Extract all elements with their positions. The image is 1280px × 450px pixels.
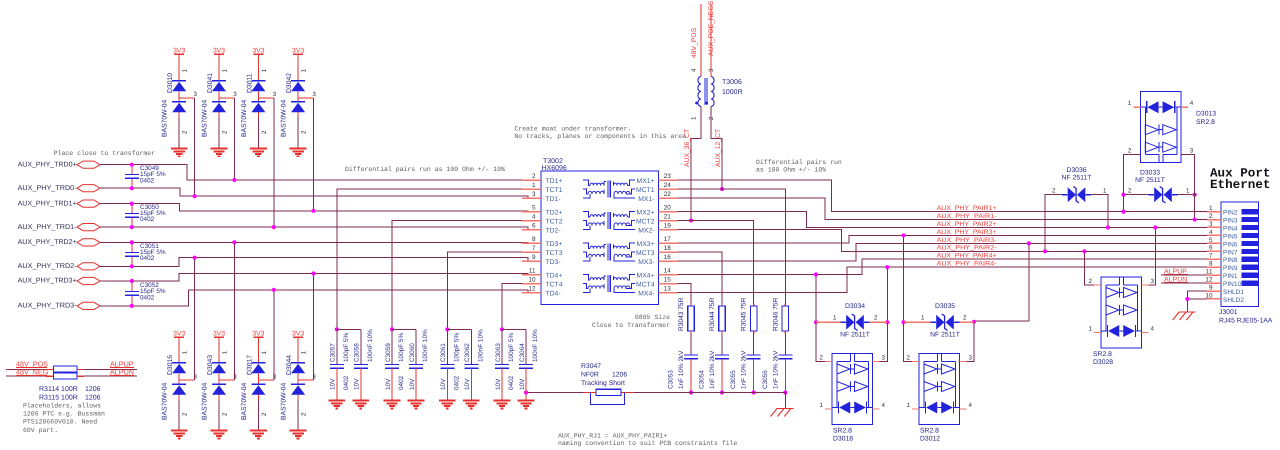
svg-text:3: 3	[1209, 221, 1213, 228]
dual diode D3043 BAS70W-04	[202, 331, 238, 439]
svg-text:D3010: D3010	[167, 73, 174, 93]
svg-text:TD1-: TD1-	[546, 196, 561, 203]
capacitor C3051 15pF	[125, 240, 166, 268]
svg-text:C3062: C3062	[464, 343, 471, 362]
T3002 pin 22 MX1-	[638, 191, 677, 203]
svg-text:2: 2	[261, 130, 268, 134]
svg-text:3: 3	[233, 91, 237, 98]
ground C3058	[352, 401, 369, 409]
svg-text:PIN7: PIN7	[1223, 249, 1238, 256]
svg-text:100pF 5%: 100pF 5%	[453, 333, 460, 362]
svg-text:5: 5	[1209, 237, 1213, 244]
svg-text:TCT2: TCT2	[546, 219, 563, 226]
svg-text:1: 1	[261, 351, 268, 355]
wire TCT4 to decoupling	[500, 284, 522, 332]
svg-text:7: 7	[532, 245, 536, 252]
svg-text:C3061: C3061	[440, 343, 447, 362]
svg-text:Placeholders, allows: Placeholders, allows	[23, 402, 101, 409]
T3002 pin 8 TD3+	[522, 236, 562, 248]
TVS D3033 NF 2511T	[1128, 170, 1190, 203]
svg-text:BAS70W-04: BAS70W-04	[162, 100, 169, 137]
svg-text:10V: 10V	[495, 378, 502, 390]
svg-text:10V: 10V	[409, 378, 416, 390]
wire clamp D3043 to row	[232, 240, 236, 380]
svg-text:1206: 1206	[85, 394, 101, 401]
svg-text:100nF 10%: 100nF 10%	[422, 329, 429, 362]
svg-text:C3059: C3059	[385, 343, 392, 362]
wire AUX_PHY_TRD3+	[100, 274, 541, 282]
svg-text:10: 10	[1205, 292, 1213, 299]
wire chassis rail	[524, 390, 785, 408]
svg-text:AUX_PHY_PAIR1+: AUX_PHY_PAIR1+	[937, 205, 997, 212]
svg-text:C3053: C3053	[668, 370, 675, 389]
svg-text:PIN3: PIN3	[1223, 218, 1238, 225]
svg-text:2: 2	[1128, 187, 1132, 194]
svg-text:BAS70W-04: BAS70W-04	[202, 383, 209, 420]
svg-text:4: 4	[1190, 100, 1194, 107]
label R3114 R3115 values	[39, 386, 101, 401]
T3002 pin 1 TCT1	[522, 182, 563, 194]
capacitor C3049 15pF	[125, 163, 166, 191]
wire TCT1 to decoupling	[335, 189, 522, 331]
wire AUX_PHY_TRD1+	[100, 204, 541, 212]
dual diode D3042 BAS70W-04	[281, 47, 317, 156]
svg-text:1: 1	[261, 69, 268, 73]
capacitor C3063	[495, 329, 515, 400]
connector J3001 RJ45 RJE05-1AA	[1219, 202, 1273, 325]
svg-text:23: 23	[664, 173, 672, 180]
svg-text:3: 3	[193, 373, 197, 380]
svg-text:2: 2	[532, 173, 536, 180]
svg-text:3: 3	[532, 191, 536, 198]
svg-text:C3056: C3056	[762, 370, 769, 389]
svg-text:PIN2: PIN2	[1223, 210, 1238, 217]
svg-text:22: 22	[664, 191, 672, 198]
resistor R3044 75R	[709, 297, 725, 333]
TVS D3034 NF 2511T	[816, 303, 887, 339]
svg-text:0402: 0402	[140, 294, 155, 301]
ground C3060	[408, 401, 425, 409]
wire D3013 pin2 down	[1124, 147, 1141, 194]
svg-text:2: 2	[963, 315, 967, 322]
svg-text:3: 3	[233, 373, 237, 380]
svg-text:D3036: D3036	[1066, 167, 1086, 174]
svg-text:R3047: R3047	[581, 363, 601, 370]
wire clamp D3044 to row	[311, 271, 315, 380]
T3002 pin 9 TD3-	[522, 254, 561, 266]
svg-text:MCT3: MCT3	[636, 250, 655, 257]
T3002 pin 16 MX3-	[638, 254, 677, 266]
svg-text:D3016: D3016	[167, 355, 174, 375]
svg-text:8: 8	[532, 236, 536, 243]
T3002 pin 17 MX3+	[637, 236, 678, 248]
svg-text:TD4-: TD4-	[546, 291, 561, 298]
svg-text:21: 21	[664, 213, 672, 220]
svg-text:PIN8: PIN8	[1223, 257, 1238, 264]
T3002 pin 4 TCT2	[522, 213, 563, 225]
svg-text:10V: 10V	[354, 378, 361, 390]
wire clamp D3010 to row	[193, 98, 197, 198]
svg-text:C3058: C3058	[354, 343, 361, 362]
svg-text:NF 2511T: NF 2511T	[1062, 174, 1092, 181]
inductor T3006 1000R common-mode choke	[691, 4, 743, 120]
T3002 winding channel 1	[583, 180, 635, 198]
net label AUX_PHY_PAIR4-	[937, 261, 997, 268]
net label AUX_PHY_PAIR2-	[937, 245, 997, 252]
off-page connector AUX_PHY_TRD3-	[18, 302, 100, 309]
svg-text:Differential pairs run as 100: Differential pairs run as 100 Ohm +/- 10…	[345, 166, 505, 173]
svg-text:10V: 10V	[330, 378, 337, 390]
off-page connector AUX_PHY_TRD1+	[18, 200, 100, 207]
svg-text:BAS70W-04: BAS70W-04	[241, 100, 248, 137]
svg-text:MX1-: MX1-	[638, 196, 654, 203]
wire MX pin 23 to AUX_PHY_PAIR1+	[678, 180, 1208, 212]
svg-text:MCT1: MCT1	[636, 187, 655, 194]
svg-text:PIN1: PIN1	[1223, 273, 1238, 280]
dual diode D3041 BAS70W-04	[202, 47, 238, 156]
capacitor C3058	[337, 329, 374, 401]
svg-text:1: 1	[833, 315, 837, 322]
svg-text:BAS70W-04: BAS70W-04	[162, 383, 169, 420]
svg-text:NF0R: NF0R	[581, 372, 599, 379]
svg-text:D3042: D3042	[286, 73, 293, 93]
svg-text:100nF 10%: 100nF 10%	[367, 329, 374, 362]
svg-text:1: 1	[301, 351, 308, 355]
svg-text:D3033: D3033	[1140, 170, 1160, 177]
svg-text:TD3-: TD3-	[546, 259, 561, 266]
wire MX pin 14 to AUX_PHY_PAIR4+	[678, 259, 1208, 274]
svg-text:AUX_PHY_TRD0+: AUX_PHY_TRD0+	[18, 161, 77, 168]
wire AUX_PHY_TRD0+	[100, 165, 541, 180]
svg-text:J3001: J3001	[1219, 309, 1238, 316]
svg-text:T3006: T3006	[722, 79, 742, 86]
wire MCT3 to R3044	[678, 252, 723, 304]
ground C3064	[518, 401, 535, 409]
ground C3059	[384, 401, 401, 409]
svg-text:MCT2: MCT2	[636, 219, 655, 226]
svg-text:D3044: D3044	[286, 355, 293, 375]
svg-text:MCT4: MCT4	[636, 282, 655, 289]
svg-text:12: 12	[528, 285, 536, 292]
wire MX pin 16 to AUX_PHY_PAIR3-	[678, 243, 1208, 261]
svg-text:1: 1	[1089, 325, 1093, 332]
svg-text:Place close to transformer: Place close to transformer	[54, 150, 156, 157]
wire clamp D3017 to row	[272, 288, 276, 380]
svg-text:TCT1: TCT1	[546, 187, 563, 194]
chassis ground (rail)	[771, 409, 794, 417]
svg-text:1nF 10% 2kV: 1nF 10% 2kV	[772, 350, 779, 389]
svg-text:TCT4: TCT4	[546, 282, 563, 289]
J3001 pin 11 PIN1	[1206, 269, 1258, 281]
wire AUX_PHY_TRD2-	[100, 258, 541, 267]
net label ALPUP	[110, 360, 134, 369]
svg-text:0402: 0402	[453, 375, 460, 390]
svg-text:0402: 0402	[140, 255, 155, 262]
svg-text:1: 1	[301, 69, 308, 73]
dual diode D3017 BAS70W-04	[241, 331, 277, 439]
svg-text:11: 11	[529, 267, 536, 274]
title Aux Port Ethernet	[1210, 167, 1270, 193]
svg-text:3: 3	[312, 373, 316, 380]
svg-text:3: 3	[312, 91, 316, 98]
T3002 pin 11 TD4+	[522, 267, 562, 279]
svg-text:C3063: C3063	[495, 343, 502, 362]
T3002 pin 24 MCT1	[636, 182, 678, 194]
svg-text:AUX_PHY_TRD1-: AUX_PHY_TRD1-	[18, 224, 77, 231]
net label AUX_PHY_PAIR2+	[937, 221, 997, 228]
ground C3061	[439, 401, 456, 409]
wire TCT3 to decoupling	[445, 252, 522, 331]
svg-text:PIN5: PIN5	[1223, 233, 1238, 240]
net label AUX_PHY_PAIR1+	[937, 205, 997, 212]
svg-text:NF 2511T: NF 2511T	[840, 332, 870, 339]
wire PAIR2+ to D3036 pin1	[1086, 195, 1111, 230]
svg-text:60V part.: 60V part.	[23, 427, 58, 434]
svg-text:1nF 10% 2kV: 1nF 10% 2kV	[709, 350, 716, 389]
svg-text:3: 3	[1190, 147, 1194, 154]
J3001 pin 9 SHLD1	[1207, 284, 1244, 296]
T3002 pin 21 MCT2	[636, 213, 678, 225]
svg-text:AUX_PHY_PAIR1-: AUX_PHY_PAIR1-	[937, 213, 997, 220]
resistor R3043 75R	[678, 297, 694, 333]
svg-text:4: 4	[532, 213, 536, 220]
off-page connector AUX_PHY_TRD3+	[18, 277, 100, 284]
svg-text:AUX_PHY_PAIR4-: AUX_PHY_PAIR4-	[937, 261, 997, 268]
svg-text:Create moat under transformer.: Create moat under transformer.	[514, 126, 631, 133]
wire AUX_PHY_TRD2+	[100, 241, 541, 244]
svg-text:PIN9: PIN9	[1223, 265, 1238, 272]
wire AUX_12_CT	[711, 107, 724, 192]
svg-text:D3035: D3035	[935, 303, 955, 310]
svg-text:13: 13	[664, 285, 672, 292]
svg-text:1000R: 1000R	[722, 89, 743, 96]
transformer T3002 HX6096	[541, 158, 659, 304]
svg-text:1: 1	[1186, 187, 1190, 194]
svg-text:AUX_PHY_PAIR4+: AUX_PHY_PAIR4+	[937, 253, 997, 260]
note create moat	[514, 126, 686, 141]
svg-text:5: 5	[532, 204, 536, 211]
svg-text:3: 3	[969, 355, 973, 362]
wire ALPUP to J3001	[1161, 268, 1207, 275]
svg-text:7: 7	[1209, 253, 1213, 260]
svg-text:D3013: D3013	[1196, 111, 1216, 118]
svg-text:100pF 5%: 100pF 5%	[398, 333, 405, 362]
ground C3057	[328, 401, 345, 409]
wire PAIR4+ tap to D3034 pin1	[814, 272, 832, 361]
svg-text:AUX_PHY_PAIR3-: AUX_PHY_PAIR3-	[937, 237, 997, 244]
capacitor C3056 1nF 2kV	[762, 334, 793, 395]
svg-text:D3012: D3012	[920, 436, 940, 443]
ground C3063	[494, 401, 511, 409]
svg-text:20: 20	[664, 204, 672, 211]
svg-text:HX6096: HX6096	[542, 165, 567, 172]
net label AUX_PHY_PAIR3-	[937, 237, 997, 244]
J3001 pin 4 PIN5	[1207, 229, 1258, 241]
capacitor C3050 15pF	[125, 202, 166, 230]
wire TCT2 to decoupling	[390, 221, 522, 332]
svg-text:1: 1	[222, 69, 229, 73]
svg-text:2: 2	[1128, 147, 1132, 154]
svg-text:10V: 10V	[385, 378, 392, 390]
wire D3013 pin3 down	[1181, 147, 1195, 194]
wire MCT2 to R3045	[678, 221, 754, 304]
resistor R3046 75R	[772, 297, 788, 333]
svg-text:2: 2	[820, 355, 824, 362]
svg-text:as 100 Ohm +/- 10%: as 100 Ohm +/- 10%	[756, 167, 826, 174]
capacitor C3053 1nF 2kV	[668, 334, 699, 395]
svg-text:AUX_PHY_TRD2+: AUX_PHY_TRD2+	[18, 239, 77, 246]
J3001 pin 10 SHLD2	[1205, 292, 1244, 304]
svg-text:BAS70W-04: BAS70W-04	[281, 100, 288, 137]
svg-text:1: 1	[1103, 187, 1107, 194]
svg-text:AUX_PHY_TRD3+: AUX_PHY_TRD3+	[18, 278, 77, 285]
wire MX pin 17 to AUX_PHY_PAIR3+	[678, 235, 1208, 243]
surge protector D3028 SR2.8	[1089, 277, 1155, 366]
net label AUX_PHY_PAIR1-	[937, 213, 997, 220]
svg-text:Tracking Short: Tracking Short	[581, 380, 625, 387]
svg-text:1206: 1206	[612, 372, 627, 379]
svg-text:3: 3	[273, 91, 277, 98]
surge protector D3013 SR2.8	[1128, 92, 1216, 163]
svg-text:PIN10: PIN10	[1223, 281, 1241, 288]
svg-text:100nF 10%: 100nF 10%	[477, 329, 484, 362]
svg-text:C3060: C3060	[409, 343, 416, 362]
svg-text:naming convention to suit PCB: naming convention to suit PCB constraint…	[558, 440, 738, 447]
wire PAIR4- to D3034 pin2	[873, 265, 890, 361]
svg-text:No tracks, planes or component: No tracks, planes or components in this …	[514, 133, 686, 140]
svg-text:10V: 10V	[519, 378, 526, 390]
svg-text:2: 2	[222, 130, 229, 134]
svg-text:PIN6: PIN6	[1223, 241, 1238, 248]
capacitor C3054 1nF 2kV	[699, 334, 730, 395]
svg-text:NF 2511T: NF 2511T	[930, 332, 960, 339]
svg-text:C3064: C3064	[519, 343, 526, 362]
svg-text:MX2+: MX2+	[637, 210, 655, 217]
svg-text:1: 1	[182, 69, 189, 73]
wire AUX_36_CT	[689, 107, 701, 223]
T3002 pin 14 MX4+	[637, 267, 678, 279]
svg-text:17: 17	[664, 236, 672, 243]
resistor R3047 NF0R tracking short	[581, 363, 627, 405]
capacitor C3061	[440, 329, 460, 400]
svg-text:2: 2	[182, 130, 189, 134]
wire MX pin 19 to AUX_PHY_PAIR2-	[678, 230, 1208, 252]
svg-text:TD2+: TD2+	[546, 210, 563, 217]
dual diode D3016 BAS70W-04	[162, 331, 198, 439]
svg-text:R3044 75R: R3044 75R	[709, 297, 716, 331]
svg-text:4: 4	[691, 68, 698, 72]
svg-text:1: 1	[222, 351, 229, 355]
svg-text:9: 9	[532, 254, 536, 261]
svg-text:15: 15	[664, 276, 672, 283]
wire clamp D3042 to row	[311, 98, 315, 213]
svg-text:TD1+: TD1+	[546, 178, 563, 185]
capacitor C3060	[392, 329, 429, 401]
svg-text:1: 1	[907, 402, 911, 409]
J3001 pin 5 PIN6	[1207, 237, 1258, 249]
T3002 pin 7 TCT3	[522, 245, 563, 257]
svg-text:SR2.8: SR2.8	[1093, 351, 1112, 358]
wire PAIR2- to D3036 pin2	[1043, 195, 1068, 254]
capacitor C3064	[502, 329, 539, 401]
wire MX pin 13 to AUX_PHY_PAIR4-	[678, 267, 1208, 292]
svg-text:D3017: D3017	[246, 355, 253, 375]
svg-text:2: 2	[1209, 213, 1213, 220]
svg-text:2: 2	[874, 315, 878, 322]
capacitor C3055 1nF 2kV	[730, 334, 761, 395]
svg-text:3: 3	[1151, 278, 1155, 285]
net label AUX_PHY_PAIR4+	[937, 253, 997, 260]
TVS D3035 NF 2511T	[904, 303, 975, 339]
svg-text:RJ45 RJE05-1AA: RJ45 RJE05-1AA	[1219, 318, 1273, 325]
svg-text:1nF 10% 2kV: 1nF 10% 2kV	[678, 350, 685, 389]
svg-text:MX1+: MX1+	[637, 178, 655, 185]
svg-text:2: 2	[1089, 278, 1093, 285]
svg-text:AUX_POE_NEGS: AUX_POE_NEGS	[708, 0, 715, 56]
J3001 pin 12 PIN10	[1205, 276, 1258, 288]
wire SHLD1/SHLD2 to chassis	[1185, 291, 1207, 312]
note differential pairs right	[756, 159, 842, 174]
svg-text:SR2.8: SR2.8	[1196, 119, 1215, 126]
svg-text:1: 1	[1128, 100, 1132, 107]
wire PAIR3- to D3035 pin2	[959, 241, 1032, 361]
svg-text:TD3+: TD3+	[546, 241, 563, 248]
svg-text:R3115 100R: R3115 100R	[39, 394, 78, 401]
svg-text:16: 16	[664, 254, 672, 261]
dual diode D3044 BAS70W-04	[281, 331, 317, 439]
svg-text:1: 1	[691, 116, 698, 120]
svg-text:SHLD1: SHLD1	[1223, 289, 1244, 296]
svg-text:TD4+: TD4+	[546, 273, 563, 280]
surge protector D3012 SR2.8	[907, 354, 973, 443]
capacitor C3062	[447, 329, 484, 401]
wire AUX_PHY_TRD1-	[100, 227, 541, 229]
svg-text:PIN4: PIN4	[1223, 225, 1238, 232]
svg-text:AUX_PHY_TRD0-: AUX_PHY_TRD0-	[18, 185, 77, 192]
svg-text:2: 2	[301, 130, 308, 134]
svg-text:AUX_PHY_PAIR2-: AUX_PHY_PAIR2-	[937, 245, 997, 252]
svg-text:AUX_PHY_PAIR2+: AUX_PHY_PAIR2+	[937, 221, 997, 228]
svg-text:2: 2	[907, 355, 911, 362]
svg-text:SHLD2: SHLD2	[1223, 297, 1244, 304]
T3002 winding channel 2	[583, 212, 635, 230]
svg-text:TCT3: TCT3	[546, 250, 563, 257]
T3002 pin 15 MCT4	[636, 276, 678, 288]
T3002 pin 20 MX2+	[637, 204, 678, 216]
J3001 pin 8 PIN9	[1207, 261, 1258, 273]
T3002 pin 23 MX1+	[637, 173, 678, 185]
chassis ground (shield)	[1173, 312, 1196, 320]
svg-text:1206: 1206	[85, 386, 101, 393]
T3002 pin 5 TD2+	[522, 204, 562, 216]
svg-text:9: 9	[1209, 284, 1213, 291]
wire PAIR1- to D3033 pin1 / D3013 pin3	[1172, 193, 1197, 222]
T3002 winding channel 4	[583, 275, 635, 293]
wire clamp D3041 to row	[232, 98, 236, 182]
svg-text:10: 10	[528, 276, 536, 283]
ground C3062	[463, 401, 480, 409]
svg-text:11: 11	[1206, 269, 1213, 276]
svg-text:R3045 75R: R3045 75R	[741, 297, 748, 331]
TVS D3036 NF 2511T	[1052, 167, 1107, 203]
svg-text:BAS70W-04: BAS70W-04	[202, 100, 209, 137]
svg-text:0402: 0402	[140, 216, 155, 223]
svg-text:BAS70W-04: BAS70W-04	[281, 383, 288, 420]
svg-text:TD2-: TD2-	[546, 228, 561, 235]
resistor R3045 75R	[741, 297, 757, 333]
wire PAIR1+ to D3033 pin2 / D3013 pin2	[1121, 193, 1154, 214]
svg-text:2: 2	[182, 412, 189, 416]
